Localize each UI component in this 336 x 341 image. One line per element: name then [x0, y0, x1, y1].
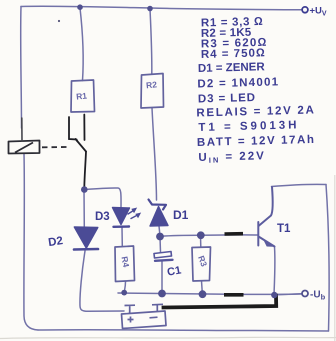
svg-text:D1 = ZENER: D1 = ZENER: [198, 61, 266, 75]
wire emitter to bottom node: [273, 247, 276, 294]
paper right edge shadow: [334, 175, 336, 341]
switch contacts: [69, 115, 86, 188]
svg-text:D3: D3: [95, 211, 110, 223]
wire D3 to R4: [121, 228, 123, 247]
wire top rail: [21, 6, 301, 10]
black wire battery minus to node: [164, 296, 277, 308]
wire R1 top: [80, 8, 83, 81]
svg-text:R2: R2: [145, 79, 157, 90]
wire bottom mid rail: [118, 293, 301, 294]
junction top left: [77, 4, 83, 10]
svg-text:T1: T1: [277, 223, 291, 235]
resistor R3: [192, 247, 211, 281]
wire R3 top stub: [200, 236, 202, 247]
wire base rail: [161, 235, 258, 236]
wire relay to bottom: [24, 154, 38, 331]
relay dashed link: [42, 146, 68, 148]
T1 collector: [259, 187, 273, 226]
battery plus sign: [128, 317, 134, 323]
wire left rail: [20, 7, 23, 129]
junction switch node: [81, 186, 88, 193]
svg-text:D1: D1: [173, 208, 189, 222]
capacitor C1 bottom plate: [155, 260, 173, 261]
diode D2: [74, 227, 98, 248]
svg-text:D3 = LED: D3 = LED: [198, 92, 256, 106]
zener D1: [150, 207, 168, 227]
svg-text:D2 = 1N4001: D2 = 1N4001: [197, 76, 279, 90]
resistor R1: [71, 80, 95, 112]
D1 zener bar: [149, 200, 167, 210]
pen dot: [58, 20, 60, 22]
wire collector top: [272, 184, 327, 186]
D2 cathode bar: [74, 248, 98, 251]
switch blade: [76, 139, 87, 152]
T1 emitter: [259, 237, 275, 247]
wire R2 top: [150, 9, 152, 74]
D3 emission arrows: [128, 209, 140, 219]
wire right rail: [326, 185, 329, 332]
svg-text:R1: R1: [76, 90, 88, 101]
wire R3 bottom stub: [201, 281, 204, 293]
D3 cathode bar: [114, 225, 130, 228]
junction R3 top node: [197, 231, 205, 239]
relay top stub: [21, 118, 23, 141]
T1 base bar: [257, 222, 259, 246]
switch stem: [84, 152, 86, 188]
junction R4 bottom node: [121, 290, 127, 296]
junction top mid: [147, 6, 153, 12]
transistor T1: [258, 187, 274, 247]
svg-text:C1: C1: [166, 265, 182, 279]
wire R4 to bottom node: [124, 282, 125, 293]
wire C1 bottom stub: [161, 261, 163, 293]
wire bottom rail: [38, 330, 329, 331]
battery plus terminal: [125, 305, 136, 313]
T1 emitter arrow: [264, 240, 274, 246]
junction C1 bottom node: [158, 290, 166, 298]
terminal +U circle: [302, 7, 308, 13]
resistor R2: [141, 74, 164, 109]
battery minus terminal: [152, 304, 163, 312]
wire junction to D3: [85, 188, 121, 207]
resistor R4: [115, 246, 135, 282]
junction R3 bottom node: [199, 290, 207, 298]
relay K: [9, 141, 40, 154]
paper bottom edge shadow: [0, 337, 336, 338]
battery: [122, 304, 167, 328]
capacitor C1 top plate: [154, 252, 172, 259]
terminal -U circle: [302, 291, 308, 297]
wire R2 to D1: [152, 108, 157, 200]
wire junction to D2: [83, 190, 85, 228]
wire C1 top stub: [159, 237, 162, 252]
black mark on bottom rail: [224, 293, 244, 297]
black mark on base rail: [225, 232, 244, 236]
junction D1 node: [156, 233, 164, 241]
wire node to minus terminal: [276, 294, 301, 295]
LED D3: [113, 208, 130, 225]
svg-text:R4: R4: [120, 256, 132, 269]
svg-text:D2: D2: [48, 235, 64, 249]
wire D2 to battery plus: [80, 251, 124, 311]
wire D1 to node: [158, 226, 161, 234]
junction emitter node: [271, 292, 277, 298]
battery minus sign: [150, 316, 158, 319]
svg-text:R4 = 750Ω: R4 = 750Ω: [201, 47, 266, 61]
